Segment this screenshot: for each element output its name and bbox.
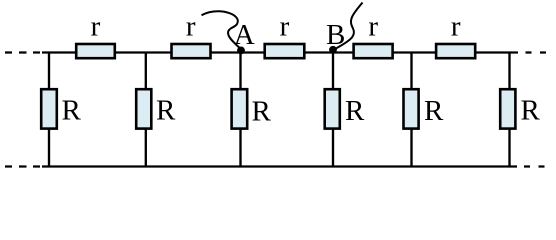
wire top rail [42,51,518,53]
resistor R (shunt #1) [41,89,57,128]
svg-text:r: r [186,11,196,43]
wire vertical branch 4 (node B) [332,53,334,167]
resistor r (series #3) [265,44,305,58]
svg-text:A: A [234,19,255,51]
resistor R (shunt #5) [404,89,419,128]
resistor R (shunt #3) [232,89,248,128]
wire vertical branch 5 [410,53,412,167]
wire vertical branch 3 (node A) [239,53,241,167]
resistor R (shunt #2) [136,89,151,128]
wire squiggle lead at node B [334,3,363,50]
resistor r (series #1) [76,44,115,58]
resistor r (series #4) [354,44,393,58]
svg-text:B: B [326,19,345,51]
svg-text:R: R [62,95,82,127]
svg-text:r: r [451,11,461,43]
svg-text:r: r [280,11,290,43]
wire bottom rail [42,165,517,167]
resistor r (series #5) [436,44,475,58]
wire bottom rail dashed left continuation [5,165,40,167]
wire bottom rail dashed right continuation [524,165,545,167]
node A junction dot [237,47,245,55]
svg-text:R: R [424,95,444,127]
wire top rail dashed right continuation [526,51,547,53]
svg-text:R: R [521,95,541,127]
wire top rail dashed left continuation [5,51,40,53]
wire squiggle lead at node A [202,11,242,49]
svg-text:r: r [368,11,378,43]
svg-text:R: R [252,96,272,128]
svg-text:R: R [345,95,365,127]
wire vertical branch 6 [508,53,510,167]
svg-text:r: r [91,11,101,43]
node B junction dot [329,46,337,54]
wire vertical branch 2 [145,53,147,167]
resistor R (shunt #4) [325,89,340,128]
resistor R (shunt #6) [500,89,515,128]
wire vertical branch 1 [48,53,50,167]
svg-text:R: R [156,95,176,127]
resistor r (series #2) [172,44,211,58]
